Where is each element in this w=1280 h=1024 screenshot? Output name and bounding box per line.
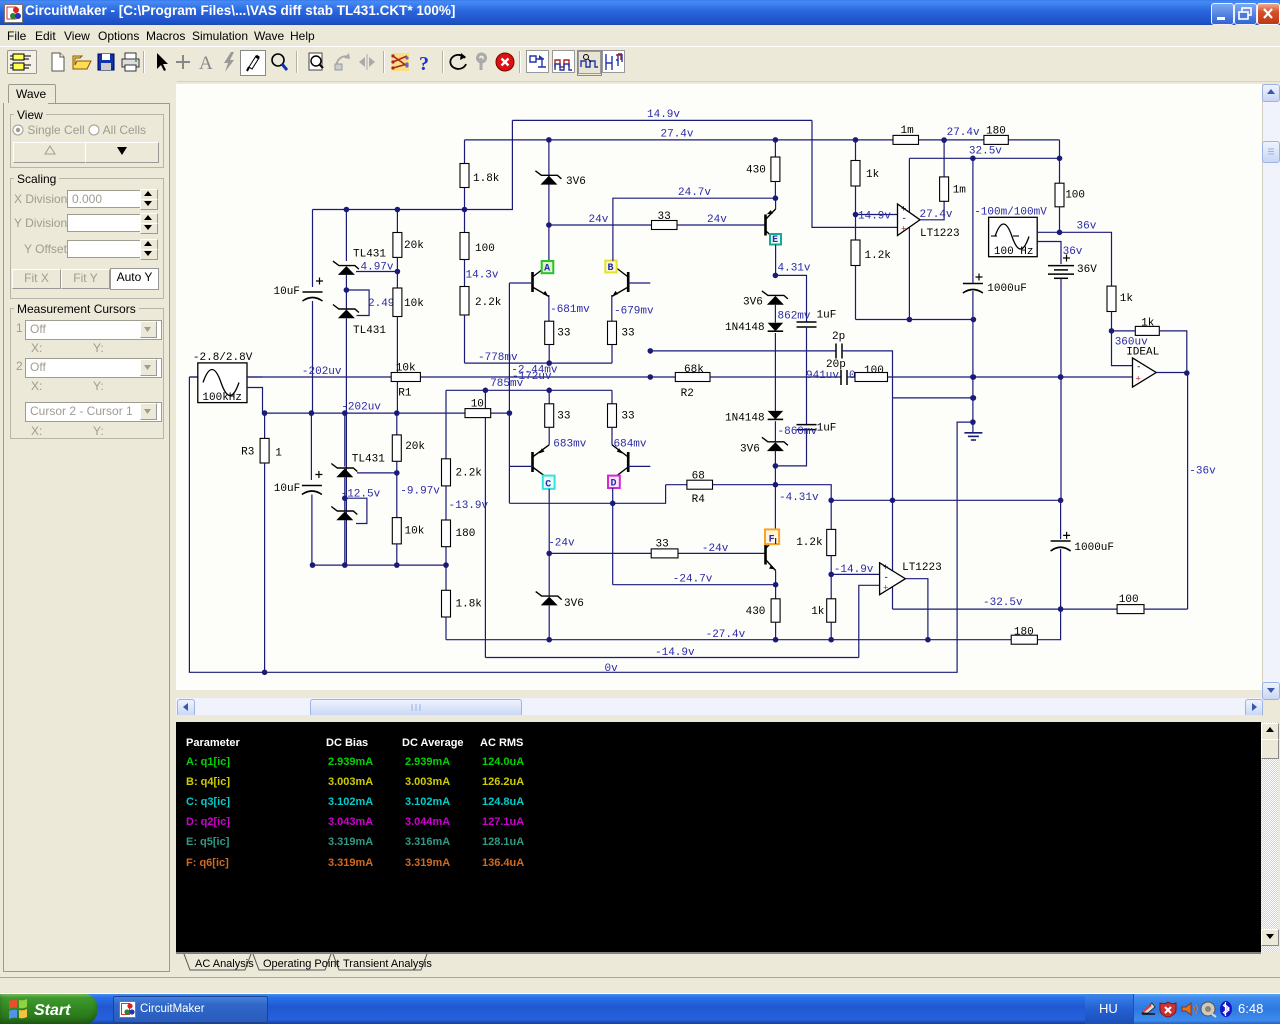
toolbar: schematic/pcb button: [7, 50, 37, 74]
signal source V1: [189, 376, 197, 378]
svg-text:-13.9v: -13.9v: [449, 500, 489, 512]
wire B base: [628, 282, 650, 284]
svg-text:1.2k: 1.2k: [865, 250, 892, 262]
svg-text:-2.8/2.8V: -2.8/2.8V: [193, 352, 253, 364]
svg-text:A: A: [199, 53, 213, 74]
svg-text:941uv: 941uv: [806, 370, 839, 382]
wire C-D base bottom rail: [509, 485, 665, 504]
wire battery column: [1037, 242, 1061, 265]
wire 785mv rail: [446, 389, 612, 391]
wire C emitter column: [548, 489, 550, 596]
start button: [0, 994, 97, 1024]
transistor Q4 B: [611, 261, 613, 272]
capacitor 1000uF lower: [1060, 500, 1062, 539]
probe B: [605, 261, 616, 273]
capacitor 1uF upper: [797, 321, 817, 323]
wire op2 plus input: [859, 585, 880, 657]
node 4.31v: [773, 273, 779, 279]
svg-text:F: F: [769, 535, 775, 546]
svg-text:-24.7v: -24.7v: [673, 574, 713, 586]
wire stack to -4.31 node: [774, 421, 776, 442]
toolbar: arrow tool: [148, 50, 172, 74]
wire -14.9v bottom rail: [485, 657, 858, 659]
wire rail after R2: [710, 376, 841, 378]
svg-text:D: D: [611, 479, 617, 490]
svg-text:100: 100: [1119, 594, 1139, 606]
resistor 430 upper: [771, 157, 780, 182]
svg-text:-202uv: -202uv: [302, 366, 342, 378]
svg-text:-: -: [884, 573, 889, 583]
wire 2p to feedback column: [842, 351, 893, 398]
svg-text:-: -: [1136, 363, 1141, 373]
tray icon 1: [1142, 1003, 1155, 1013]
toolbar: probe tool (pressed): [240, 50, 266, 76]
wire -24v rail: [549, 552, 651, 554]
svg-text:4.31v: 4.31v: [778, 263, 811, 275]
wire R4 rail: [666, 484, 687, 486]
svg-text:3V6: 3V6: [740, 443, 760, 455]
wire -24.7v rail: [613, 584, 776, 586]
wire 1.8k lower to -27.4 rail: [445, 617, 447, 640]
probe A: [542, 261, 554, 273]
svg-text:3V6: 3V6: [566, 176, 586, 188]
svg-text:27.4v: 27.4v: [920, 209, 953, 221]
svg-text:10uF: 10uF: [274, 483, 300, 495]
wire ideal output: [1156, 372, 1187, 374]
svg-text:1000uF: 1000uF: [1074, 542, 1114, 554]
wire 20k lower column: [396, 413, 398, 435]
ground: [964, 432, 982, 434]
svg-text:24v: 24v: [707, 214, 727, 226]
toolbar: find doc: [305, 50, 329, 74]
capacitor 20p: [840, 370, 842, 385]
wire TL431 column upper: [345, 210, 347, 262]
resistor 20k lower: [392, 435, 401, 461]
toolbar: open: [70, 50, 94, 74]
probe C: [543, 476, 555, 489]
toolbar: setup (disabled): [470, 50, 494, 74]
svg-text:R3: R3: [241, 446, 254, 458]
svg-text:68k: 68k: [684, 364, 704, 376]
resistor 100 bottom right: [1117, 605, 1144, 614]
tray icon 2 shield: [1160, 1002, 1176, 1017]
resistor 10k upper: [393, 288, 402, 317]
resistor 100 right: [1055, 183, 1064, 207]
taskbar: [0, 993, 1280, 994]
wire op1 V+ pin: [908, 158, 910, 212]
resistor 1k right vertical: [1107, 286, 1116, 311]
diode D4 1N4148: [768, 411, 784, 420]
wire -202uv rail: [263, 412, 466, 414]
svg-text:IDEAL: IDEAL: [1126, 347, 1159, 359]
svg-text:C: C: [545, 479, 551, 490]
resistor 100 feedback: [847, 376, 855, 378]
svg-text:1.2k: 1.2k: [796, 537, 823, 549]
resistor R1 10k: [391, 373, 420, 382]
wire op1 minus input: [856, 214, 898, 216]
svg-text:-778mv: -778mv: [478, 352, 518, 364]
svg-text:1N4148: 1N4148: [725, 322, 765, 334]
svg-text:LT1223: LT1223: [920, 228, 960, 240]
svg-text:3V6: 3V6: [564, 598, 584, 610]
wire rail y500: [831, 499, 1060, 501]
wire R4 to right: [713, 485, 832, 501]
probe D: [608, 476, 620, 488]
probe F: [765, 529, 779, 544]
junction dot -4.31 node: [773, 463, 779, 469]
svg-text:14.9v: 14.9v: [858, 211, 891, 223]
svg-text:3V6: 3V6: [743, 297, 763, 309]
toolbar: rotate (disabled): [331, 50, 355, 74]
wire -32.5v rail: [893, 608, 1118, 610]
resistor 1.8k lower: [445, 565, 447, 590]
wire R3 to 0v rail: [264, 463, 266, 672]
svg-text:AC Analysis: AC Analysis: [195, 958, 254, 970]
schematic horizontal scrollbar: [176, 698, 1262, 715]
svg-text:862mv: 862mv: [778, 311, 811, 323]
junction dot TL431 mid: [344, 287, 350, 293]
resistor 20k upper: [393, 233, 402, 258]
resistor 1k lower: [830, 574, 832, 598]
toolbar: save: [94, 50, 118, 74]
resistor 1m vertical: [940, 177, 949, 201]
svg-text:100: 100: [864, 365, 884, 377]
waveform panel scrollbar: [1261, 722, 1278, 952]
measurement cursors group: [10, 308, 164, 439]
wire 27.4v top rail: [465, 139, 984, 141]
wire 1.2k bottom rail y319: [856, 319, 974, 321]
svg-text:1.8k: 1.8k: [456, 599, 483, 611]
toolbar: new: [46, 50, 70, 74]
wire op2 V+ pin: [892, 398, 894, 571]
TL431 U2: [338, 310, 355, 319]
svg-text:B: B: [608, 263, 614, 274]
resistor R2 68k: [675, 373, 710, 382]
svg-text:1uF: 1uF: [817, 309, 837, 321]
wire A base: [509, 282, 532, 284]
resistor 2.2k lower: [442, 459, 451, 486]
svg-text:-4.31v: -4.31v: [779, 492, 819, 504]
transistor Q1 A: [548, 265, 550, 274]
svg-text:Operating Point: Operating Point: [263, 958, 339, 970]
title bar: [0, 0, 1280, 25]
toolbar: run digital: [552, 50, 575, 74]
svg-text:100 Hz: 100 Hz: [994, 246, 1034, 258]
svg-text:+: +: [883, 563, 888, 573]
wire op2 output: [905, 579, 928, 640]
tray icon 5 bluetooth: [1220, 1001, 1232, 1017]
resistor 33 D: [608, 404, 617, 428]
junction dots -202uv rail: [309, 410, 315, 416]
schematic vertical scrollbar: [1262, 84, 1280, 698]
wire rail R2 segment: [650, 376, 675, 378]
svg-text:1uF: 1uF: [817, 423, 837, 435]
zener D5 3V6: [767, 442, 784, 451]
capacitor 1000uF upper: [972, 158, 974, 283]
svg-text:24v: 24v: [589, 214, 609, 226]
wire op2 V- pin: [892, 587, 894, 609]
svg-text:R1: R1: [398, 387, 412, 399]
wire op1 noninverting input from 14.9v rail: [812, 120, 898, 227]
resistor R3 1: [264, 413, 266, 438]
svg-text:2.2k: 2.2k: [456, 467, 483, 479]
wire -778mv rail: [465, 362, 613, 364]
wire diode stack mid: [774, 305, 776, 323]
svg-text:100: 100: [475, 243, 495, 255]
resistor 33 F-base: [651, 549, 678, 558]
resistor 1k op1: [851, 161, 860, 187]
transistor Q2 D: [627, 452, 630, 472]
wire 2p branch: [650, 350, 836, 352]
toolbar: stop: [493, 50, 517, 74]
wire 10uF column left: [312, 210, 314, 288]
resistor R4 68: [687, 480, 713, 489]
svg-text:2p: 2p: [832, 331, 845, 343]
svg-text:-100m/100mV: -100m/100mV: [974, 207, 1047, 219]
svg-text:24.7v: 24.7v: [678, 187, 711, 199]
svg-text:LT1223: LT1223: [902, 562, 942, 574]
svg-text:?: ?: [419, 53, 429, 74]
svg-text:33: 33: [557, 410, 570, 422]
svg-text:20k: 20k: [405, 441, 425, 453]
capacitor 10uF lower: [310, 413, 312, 480]
svg-text:TL431: TL431: [352, 453, 385, 465]
wire 1k to output node: [1159, 331, 1187, 373]
svg-text:1k: 1k: [1120, 293, 1134, 305]
wire 1.2k-1k right column: [830, 500, 832, 529]
junction dot 20k-10k: [395, 269, 401, 275]
wire 180 to -32.5 node: [1037, 609, 1060, 640]
svg-text:430: 430: [746, 165, 766, 177]
svg-text:-679mv: -679mv: [614, 306, 654, 318]
svg-text:TL431: TL431: [353, 325, 386, 337]
svg-text:1000uF: 1000uF: [987, 283, 1027, 295]
scaling group: [10, 178, 164, 299]
wire feedback link: [893, 397, 973, 399]
wire A emitter to 33: [548, 295, 550, 321]
wire D collector column: [612, 488, 614, 585]
wire TL431 ref tap: [356, 271, 397, 273]
wire C-D emitter top rails: [548, 390, 550, 404]
svg-text:1.8k: 1.8k: [473, 173, 500, 185]
wire 430 upper branch: [774, 140, 776, 157]
resistor 430 lower: [775, 585, 777, 599]
svg-text:180: 180: [456, 528, 476, 540]
wire rail to ideal opamp: [888, 376, 1133, 378]
wire zener A-collector branch: [548, 140, 550, 261]
toolbar: mirror (disabled): [355, 50, 379, 74]
wire 0v rail: [189, 377, 973, 672]
svg-text:Start: Start: [34, 1002, 71, 1019]
wire ideal minus input: [1112, 331, 1133, 366]
menu bar: [0, 25, 1280, 46]
wire TL431 U4 bracket: [345, 498, 367, 523]
wire TL431 lower column: [344, 413, 346, 467]
svg-text:1: 1: [275, 447, 282, 459]
resistor 180 left: [442, 520, 451, 547]
wire mid rail y210: [313, 120, 513, 209]
wire TL431 U3 tap: [357, 472, 397, 474]
zener D6 3V6 bottom-left: [541, 597, 558, 606]
resistor 180 bottom: [1011, 635, 1037, 644]
svg-text:2.49: 2.49: [368, 298, 394, 310]
svg-text:14.3v: 14.3v: [466, 270, 499, 282]
wire 1uF lower return: [775, 430, 806, 466]
svg-text:1k: 1k: [866, 169, 880, 181]
toolbar: digital check: [389, 50, 413, 74]
op-amp U4 LT1223 upper: [898, 204, 921, 236]
svg-text:684mv: 684mv: [614, 439, 647, 451]
resistor 1.2k op1: [855, 215, 857, 241]
svg-text:-860mv: -860mv: [778, 426, 818, 438]
resistor 100 upper: [460, 233, 469, 260]
transistor Q5 E: [764, 215, 767, 236]
svg-text:10uF: 10uF: [274, 286, 300, 298]
svg-text:36v: 36v: [1077, 221, 1097, 233]
zener D2 3V6: [767, 296, 784, 305]
TL431 U1: [338, 266, 355, 275]
svg-text:-202uv: -202uv: [341, 401, 381, 413]
resistor 33 A-emitter: [545, 321, 554, 344]
svg-text:33: 33: [656, 539, 669, 551]
toolbar: wire tool lightning: [217, 50, 241, 74]
wire TL431 U2 feedback bracket: [346, 290, 369, 316]
svg-text:+: +: [883, 584, 888, 594]
svg-text:430: 430: [746, 606, 766, 618]
resistor 33 C: [545, 404, 554, 428]
wire op2 minus input: [831, 573, 879, 575]
wire C base: [509, 465, 532, 467]
svg-text:36V: 36V: [1077, 264, 1097, 276]
svg-text:14.9v: 14.9v: [647, 109, 680, 121]
svg-text:68: 68: [692, 470, 705, 482]
svg-text:-32.5v: -32.5v: [983, 597, 1023, 609]
tray: [1085, 994, 1133, 1024]
svg-text:33: 33: [621, 410, 634, 422]
wire 24v base rail: [549, 224, 652, 226]
resistor 33 E-base: [652, 221, 678, 230]
svg-text:-36v: -36v: [1189, 465, 1216, 477]
wire 20k column: [396, 210, 398, 233]
wire op1 output: [920, 201, 944, 220]
toolbar: print: [118, 50, 142, 74]
wire battery to rail: [1060, 278, 1062, 500]
svg-text:-9.97v: -9.97v: [400, 485, 440, 497]
toolbar: zoom tool: [267, 50, 291, 74]
transistor Q3 C: [531, 452, 534, 472]
signal source V2 100Hz: [989, 217, 1038, 256]
svg-text:1m: 1m: [953, 185, 967, 197]
wire -36v column: [1187, 373, 1189, 609]
diode D3 1N4148: [768, 323, 784, 332]
svg-text:-681mv: -681mv: [550, 304, 590, 316]
svg-text:10k: 10k: [396, 363, 416, 375]
junction dot A collector on 27.4v rail: [546, 137, 552, 143]
svg-text:1N4148: 1N4148: [725, 413, 765, 425]
wire source stubs: [247, 376, 263, 378]
svg-text:100: 100: [1065, 190, 1085, 202]
wire D base: [628, 465, 650, 467]
svg-text:TL431: TL431: [353, 249, 386, 261]
svg-text:0v: 0v: [605, 663, 619, 675]
wire source V2 stubs: [1037, 231, 1059, 233]
svg-text:785mv: 785mv: [490, 378, 523, 390]
svg-text:20k: 20k: [404, 240, 424, 252]
battery 36V: [1063, 255, 1070, 262]
wire -27.4v rail: [446, 639, 1011, 641]
junction dots mid rail: [344, 207, 350, 213]
svg-text:R2: R2: [681, 388, 694, 400]
op-amp U6 LT1223 lower: [880, 563, 906, 595]
junction dot B-D base column: [648, 374, 654, 380]
wire 100-2.2k column: [464, 210, 466, 233]
resistor 10k lower: [392, 518, 401, 544]
wire op1 V- pin: [908, 227, 910, 319]
svg-text:A: A: [544, 264, 550, 275]
tray icon 3 speaker orange: [1182, 1003, 1191, 1015]
wire 1uF tap: [775, 275, 806, 321]
schematic canvas: [176, 84, 1262, 698]
analysis tabs: [176, 952, 1261, 954]
wire 2.2k-180 column: [445, 390, 447, 459]
svg-text:683mv: 683mv: [553, 439, 586, 451]
resistor 1.8k upper: [460, 164, 469, 188]
TL431 U3: [336, 469, 353, 478]
toolbar: [0, 46, 1280, 80]
left wave panel: [0, 81, 177, 993]
svg-text:-24v: -24v: [548, 537, 575, 549]
wire 24.7v rail: [613, 198, 776, 261]
svg-text:+: +: [901, 225, 906, 235]
svg-text:-14.9v: -14.9v: [655, 647, 695, 659]
zener D1 3V6 top-left: [540, 176, 557, 185]
svg-text:27.4v: 27.4v: [947, 127, 980, 139]
transistor Q6 F: [764, 544, 767, 565]
svg-text:33: 33: [557, 328, 570, 340]
wire bottom rail y565: [313, 564, 447, 566]
svg-text:R4: R4: [692, 494, 706, 506]
toolbar: mixed mode (pressed): [577, 50, 602, 76]
svg-text:-27.4v: -27.4v: [706, 629, 746, 641]
svg-text:-: -: [902, 214, 907, 224]
svg-text:33: 33: [621, 328, 634, 340]
svg-text:10: 10: [471, 399, 484, 411]
svg-text:33: 33: [658, 211, 671, 223]
svg-text:100kHz: 100kHz: [202, 392, 242, 404]
svg-text:E: E: [772, 235, 778, 246]
wire B emitter to 33: [611, 295, 613, 321]
svg-text:+: +: [1136, 375, 1141, 385]
resistor 33 B-emitter: [608, 321, 617, 344]
waveform results panel: [176, 722, 1261, 952]
svg-text:180: 180: [1014, 626, 1034, 638]
svg-text:1k: 1k: [811, 606, 825, 618]
tray icon 4 volume: [1201, 1002, 1215, 1016]
resistor 10: [465, 409, 491, 418]
wire -14.9v left column: [484, 390, 486, 657]
wire 180 down to 32.5v rail: [1059, 140, 1061, 183]
toolbar: help: [414, 50, 438, 74]
wire 1k op1 column: [855, 140, 857, 161]
wire A-C base column: [508, 283, 510, 503]
svg-text:2.2k: 2.2k: [475, 297, 502, 309]
capacitor 10uF upper: [303, 291, 323, 293]
toolbar: scope probe: [602, 50, 625, 74]
toolbar: reset: [447, 50, 471, 74]
wire R1 main rail: [189, 376, 391, 378]
svg-text:27.4v: 27.4v: [661, 129, 694, 141]
toolbar: plus tool: [171, 50, 195, 74]
